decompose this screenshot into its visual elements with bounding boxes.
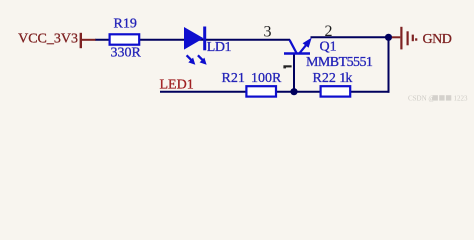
svg-text:1223: 1223 (454, 95, 469, 103)
svg-text:GND: GND (423, 32, 452, 47)
svg-text:3: 3 (264, 24, 272, 41)
svg-text:R22: R22 (313, 71, 336, 86)
svg-text:Q1: Q1 (320, 40, 337, 55)
svg-text:LED1: LED1 (160, 78, 194, 93)
svg-text:VCC_3V3: VCC_3V3 (18, 32, 78, 47)
svg-text:R21: R21 (222, 71, 245, 86)
svg-text:100R: 100R (251, 71, 282, 86)
svg-text:330R: 330R (111, 45, 142, 60)
svg-text:1k: 1k (339, 71, 352, 86)
svg-text:CSDN @: CSDN @ (408, 95, 435, 103)
svg-text:LD1: LD1 (207, 40, 232, 55)
svg-text:2: 2 (325, 23, 333, 40)
svg-text:MMBT5551: MMBT5551 (306, 55, 373, 70)
svg-text:R19: R19 (114, 16, 137, 31)
